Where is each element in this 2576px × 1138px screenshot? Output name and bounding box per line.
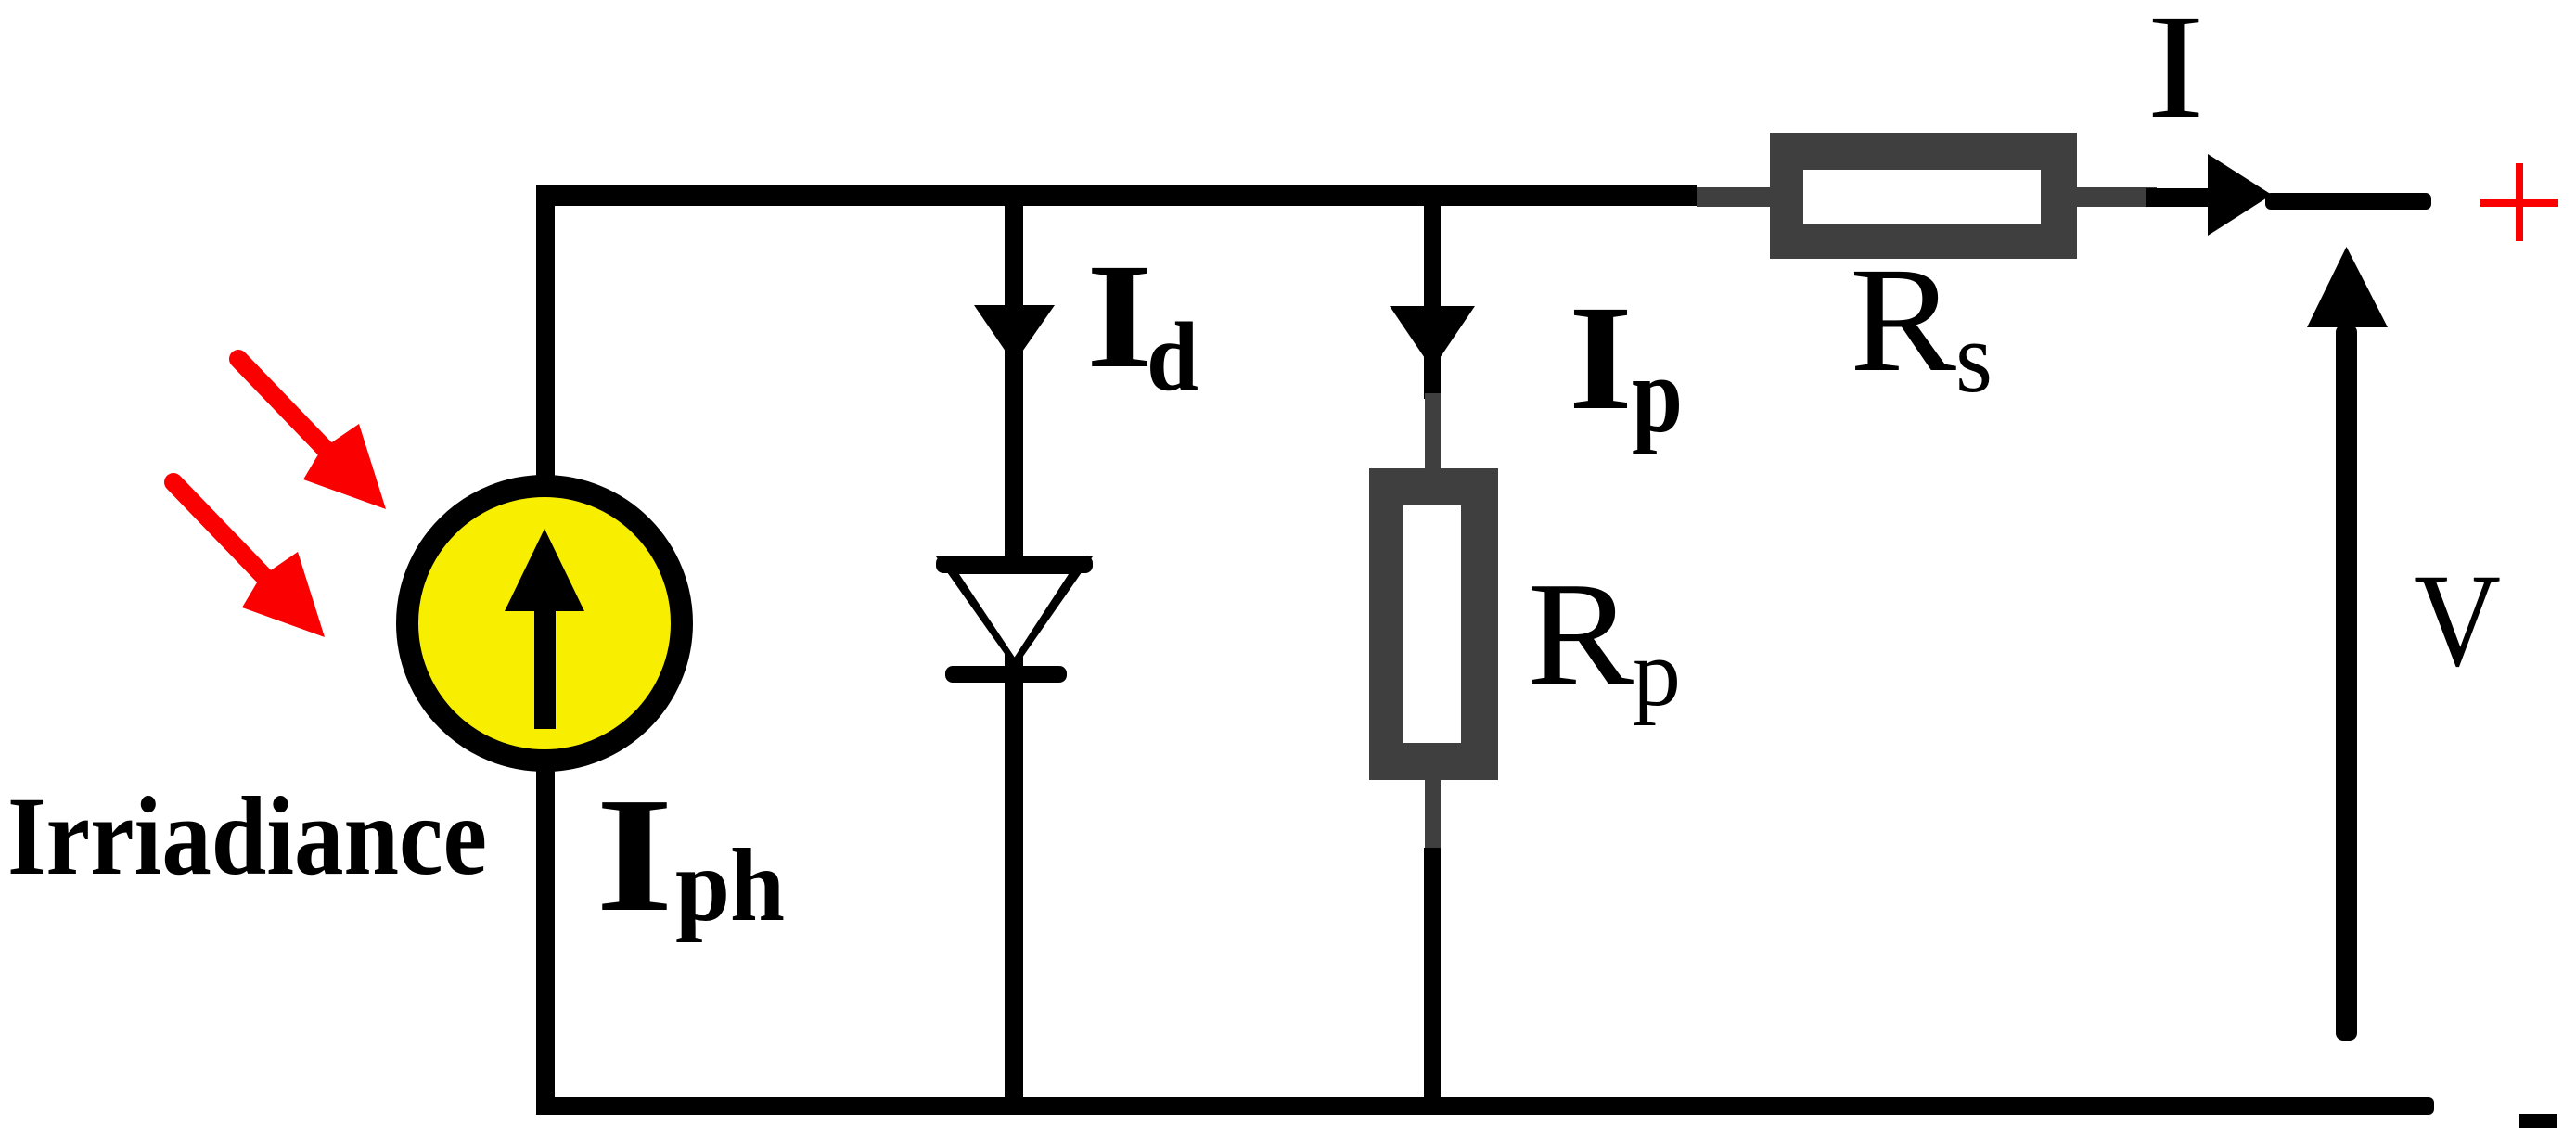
wire bottom horizontal — [536, 1097, 2434, 1115]
resistor Rp body — [1369, 468, 1498, 780]
current source arrow shaft — [534, 594, 556, 729]
minus sign — [2519, 1114, 2557, 1128]
wire diode branch vertical — [1005, 196, 1023, 1105]
diode D1 triangle outer — [936, 556, 1093, 669]
svg-text:d: d — [1147, 302, 1198, 411]
svg-text:R: R — [1850, 237, 1956, 403]
wire Rp branch lower gray lead — [1425, 777, 1441, 851]
arrow Ip current direction — [1390, 306, 1475, 369]
diode D1 triangle inner white — [959, 574, 1069, 658]
wire Rp branch upper gray lead — [1425, 393, 1441, 471]
svg-text:Irriadiance: Irriadiance — [7, 774, 487, 899]
diode D1 anode bar — [936, 556, 1093, 573]
svg-text:s: s — [1955, 301, 1993, 414]
wire Rp branch lower black — [1424, 848, 1441, 1106]
svg-text:R: R — [1527, 551, 1634, 716]
arrow I head — [2208, 154, 2272, 236]
svg-text:I: I — [1086, 234, 1153, 400]
svg-text:p: p — [1633, 620, 1681, 726]
svg-text:I: I — [596, 764, 673, 946]
arrow V shaft — [2336, 325, 2357, 1041]
wire Rp branch upper black — [1424, 196, 1441, 399]
current source U1 circle — [407, 486, 682, 761]
resistor Rs body — [1770, 133, 2077, 259]
wire gray lead right of Rs — [2073, 187, 2157, 207]
irradiance red arrow 2 — [173, 482, 325, 637]
wire top horizontal — [536, 185, 1697, 206]
wire stub after arrow I — [2265, 193, 2431, 210]
svg-text:p: p — [1632, 334, 1683, 455]
current source arrow head — [505, 529, 584, 611]
irradiance red arrow 1 — [238, 359, 386, 509]
svg-text:ph: ph — [675, 828, 785, 943]
diode D1 cathode bar — [945, 666, 1067, 683]
svg-text:V: V — [2414, 547, 2501, 695]
plus sign — [2480, 163, 2558, 241]
svg-text:I: I — [2147, 0, 2205, 150]
arrow Id current direction — [974, 305, 1055, 364]
svg-text:I: I — [1569, 275, 1633, 441]
arrow I shaft — [2146, 188, 2211, 207]
arrow V head — [2307, 247, 2388, 327]
wire gray lead left of Rs — [1697, 187, 1774, 207]
wire left vertical — [536, 185, 555, 1115]
